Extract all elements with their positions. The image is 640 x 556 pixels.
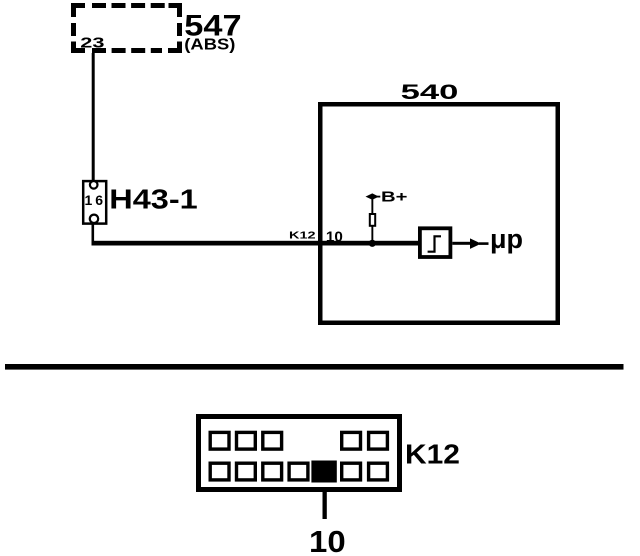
separator line bbox=[5, 364, 624, 370]
H43-1 top terminal circle bbox=[90, 181, 98, 189]
wire from resistor up to B+ bbox=[371, 198, 373, 214]
wire horizontal to box 540 bbox=[92, 241, 420, 246]
cavity row 1 pin 6 bbox=[342, 432, 361, 449]
cavity row 2 pin 11 bbox=[342, 463, 361, 480]
H43-1 bottom terminal circle bbox=[90, 215, 98, 223]
step waveform symbol bbox=[428, 236, 441, 251]
cavity row 2 pin 9 bbox=[237, 463, 256, 480]
control unit box 540 bbox=[320, 104, 558, 323]
cavity row 2 pin 8 bbox=[210, 463, 229, 480]
svg-text:B+: B+ bbox=[381, 188, 407, 205]
svg-text:10: 10 bbox=[309, 524, 346, 556]
signal conditioner box U1 bbox=[420, 228, 451, 257]
svg-text:H43-1: H43-1 bbox=[109, 184, 198, 214]
arrowhead bbox=[470, 238, 481, 249]
wire from pin 23 down to H43-1 bbox=[92, 53, 95, 181]
B+ supply arrow bbox=[366, 193, 379, 199]
wire junction node bbox=[369, 240, 376, 247]
cavity row 1 pin 2 bbox=[237, 432, 256, 449]
svg-text:10: 10 bbox=[326, 230, 343, 246]
svg-text:23: 23 bbox=[80, 34, 104, 51]
cavity row 1 pin 3 bbox=[263, 432, 282, 449]
wire from U1 to arrow bbox=[452, 242, 470, 245]
cavity row 1 pin 1 bbox=[210, 432, 229, 449]
svg-text:K12: K12 bbox=[405, 439, 460, 470]
component 547 (ABS) dashed box bbox=[74, 6, 180, 51]
connector K12 body bbox=[199, 417, 400, 490]
svg-text:μp: μp bbox=[490, 224, 523, 254]
cavity row 2 pin 9c bbox=[289, 463, 308, 480]
wire stub after arrow bbox=[479, 242, 489, 245]
svg-text:16: 16 bbox=[85, 192, 107, 208]
cavity pin 10 filled bbox=[311, 461, 336, 483]
wire from pin 10 cavity down bbox=[323, 491, 327, 519]
connector H43-1 body bbox=[83, 181, 106, 224]
wire from junction up to resistor bbox=[371, 226, 373, 242]
cavity row 2 pin 9b bbox=[263, 463, 282, 480]
wire from H43-1 pin 16 down bbox=[92, 224, 95, 246]
svg-text:(ABS): (ABS) bbox=[184, 35, 235, 54]
cavity row 1 pin 7 bbox=[369, 432, 388, 449]
cavity row 2 pin 12 bbox=[369, 463, 388, 480]
svg-text:540: 540 bbox=[401, 80, 459, 104]
resistor bbox=[370, 214, 375, 226]
svg-text:K12: K12 bbox=[289, 230, 316, 241]
